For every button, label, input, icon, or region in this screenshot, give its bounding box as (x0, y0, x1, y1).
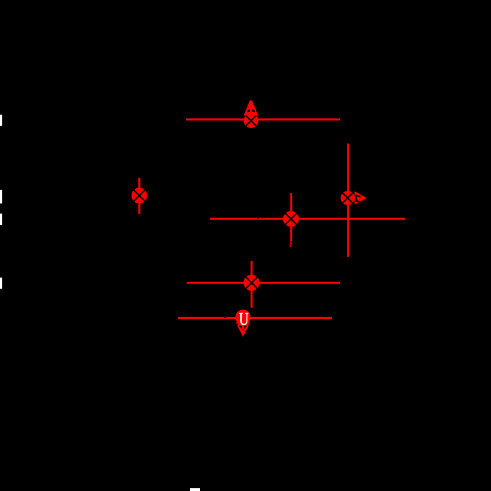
lamp L5 (244, 275, 260, 291)
notch on wire C (257, 218, 259, 219)
wire E (bottom horizontal) (178, 317, 332, 319)
terminal fragment (left edge, row 3) (0, 214, 2, 225)
lamp L1 with up arrow (244, 100, 259, 128)
voltmeter U with down arrow (235, 310, 250, 337)
terminal fragment (left edge, row 4) (0, 278, 2, 289)
wire B (right vertical) (347, 144, 349, 257)
terminal fragment (left edge, row 2) (0, 190, 2, 204)
wire A (top horizontal) (186, 118, 340, 120)
wire stub below lamp L3 (290, 227, 292, 242)
svg-text:U: U (239, 310, 249, 329)
wire D (horizontal) (187, 282, 340, 284)
notch on wire E (224, 317, 226, 318)
lamp L4 (132, 188, 148, 204)
wire stubs of lamp L4 (138, 178, 140, 214)
terminal fragment (left edge, row 1) (0, 115, 2, 126)
terminal fragment (bottom edge) (190, 488, 200, 491)
wire stub above lamp L3 (290, 193, 292, 211)
wire through lamp L5 (251, 261, 253, 308)
lamp L2 with right arrow (341, 191, 367, 205)
lamp L3 (283, 211, 299, 227)
wire C (middle horizontal) (210, 218, 405, 220)
